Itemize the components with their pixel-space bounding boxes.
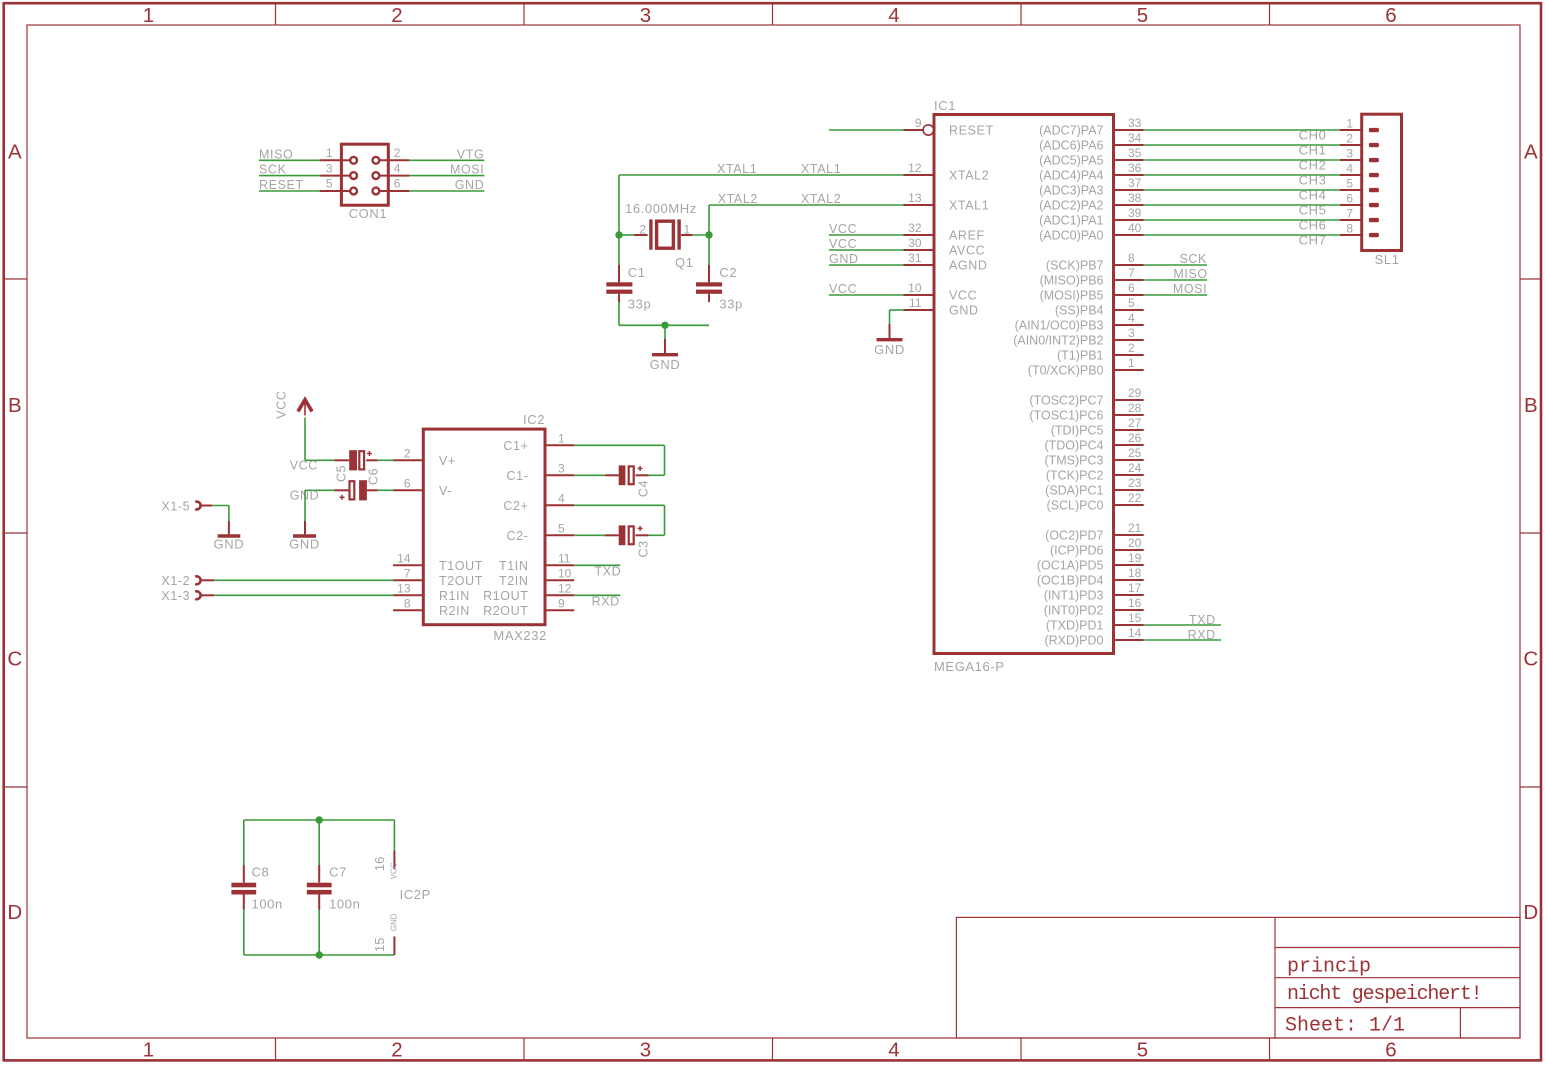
svg-text:C: C [7, 648, 22, 671]
svg-text:XTAL1: XTAL1 [801, 162, 841, 176]
svg-text:40: 40 [1128, 221, 1142, 235]
IC IC1 MEGA16-P box [934, 115, 1114, 654]
capacitor C8 [231, 865, 256, 910]
SL1 pin contacts [1369, 128, 1379, 237]
svg-text:39: 39 [1128, 206, 1142, 220]
ground symbol at X1-5 [218, 521, 241, 536]
svg-text:34: 34 [1128, 131, 1142, 145]
svg-text:GND: GND [390, 913, 399, 931]
junction crystal right [705, 231, 712, 238]
svg-text:(TXD)PD1: (TXD)PD1 [1046, 619, 1104, 633]
svg-text:CH4: CH4 [1299, 188, 1327, 203]
ground symbol below C5 C6 [293, 521, 316, 536]
svg-text:CH7: CH7 [1299, 233, 1327, 248]
svg-text:(AIN1/OC0)PB3: (AIN1/OC0)PB3 [1015, 319, 1104, 333]
svg-text:XTAL1: XTAL1 [717, 162, 757, 176]
svg-text:33p: 33p [628, 297, 652, 312]
svg-text:TXD: TXD [595, 564, 622, 578]
svg-text:11: 11 [558, 551, 571, 565]
svg-text:(OC1B)PD4: (OC1B)PD4 [1037, 574, 1104, 588]
junction bottom bus [316, 951, 323, 958]
IC IC2 MAX232 box [423, 429, 545, 625]
wire VCC column down to gnd [304, 490, 306, 521]
net VTG wire at CON1 [409, 159, 484, 161]
svg-text:9: 9 [915, 116, 922, 130]
svg-text:MEGA16-P: MEGA16-P [934, 659, 1005, 674]
svg-text:(TCK)PC2: (TCK)PC2 [1046, 469, 1104, 483]
svg-text:Sheet: 1/1: Sheet: 1/1 [1285, 1015, 1405, 1038]
svg-text:CH6: CH6 [1299, 218, 1327, 233]
svg-text:8: 8 [1346, 222, 1353, 236]
svg-text:MISO: MISO [1173, 267, 1207, 281]
svg-text:20: 20 [1128, 536, 1142, 550]
svg-text:4: 4 [888, 1039, 899, 1062]
svg-text:3: 3 [640, 1039, 651, 1062]
IC1 left pins [904, 125, 935, 310]
net SCK wire at CON1 [259, 175, 320, 177]
svg-text:MISO: MISO [259, 147, 293, 161]
svg-text:1: 1 [1346, 117, 1353, 131]
svg-text:100n: 100n [252, 896, 283, 911]
svg-text:12: 12 [558, 581, 572, 595]
svg-text:(OC2)PD7: (OC2)PD7 [1045, 529, 1103, 543]
svg-text:23: 23 [1128, 476, 1142, 490]
wire V- row left [305, 489, 334, 491]
svg-text:30: 30 [908, 236, 922, 250]
svg-text:16: 16 [1128, 596, 1142, 610]
wire decoupling top bus [244, 819, 395, 821]
svg-text:TXD: TXD [1189, 613, 1216, 627]
net MOSI wire at IC1 pin 6 [1144, 294, 1207, 296]
svg-text:(INT1)PD3: (INT1)PD3 [1044, 589, 1104, 603]
svg-text:8: 8 [404, 596, 411, 610]
svg-text:10: 10 [908, 281, 922, 295]
net MOSI wire at CON1 [409, 175, 484, 177]
svg-text:C1+: C1+ [503, 439, 528, 453]
svg-text:X1-2: X1-2 [161, 574, 190, 588]
svg-text:RXD: RXD [592, 594, 620, 608]
svg-text:IC2: IC2 [523, 412, 545, 427]
pin X1-5 [195, 502, 212, 510]
svg-text:5: 5 [1346, 177, 1353, 191]
svg-text:D: D [1523, 901, 1538, 924]
svg-text:1: 1 [558, 431, 565, 445]
svg-text:(ADC3)PA3: (ADC3)PA3 [1039, 184, 1103, 198]
IC1 right pin numbers [1128, 116, 1142, 640]
svg-text:(TDI)PC5: (TDI)PC5 [1051, 424, 1104, 438]
svg-text:(SCL)PC0: (SCL)PC0 [1047, 499, 1104, 513]
svg-text:4: 4 [1128, 311, 1135, 325]
svg-text:5: 5 [1137, 1039, 1148, 1062]
net XTAL2 wire horizontal [709, 204, 904, 206]
wire gnd stub [664, 325, 666, 339]
svg-text:2: 2 [391, 4, 402, 27]
svg-text:2: 2 [1346, 132, 1353, 146]
IC2 left pins [393, 460, 423, 610]
nets CH0-CH7 wires [1144, 130, 1362, 235]
IC2P power pin 16 VCC [393, 850, 395, 869]
svg-text:(TOSC1)PC6: (TOSC1)PC6 [1029, 409, 1103, 423]
svg-text:32: 32 [908, 221, 922, 235]
wire crystal ground bus [619, 324, 709, 326]
connector SL1 box [1362, 114, 1402, 250]
wire C1 bottom [618, 302, 620, 325]
svg-text:C2-: C2- [507, 529, 529, 543]
IC1 right pins [1114, 130, 1144, 640]
wire C1+ to C4 loop [574, 445, 664, 475]
supply symbol VCC arrow [298, 400, 312, 416]
svg-text:2: 2 [391, 1039, 402, 1062]
svg-text:VTG: VTG [457, 147, 485, 161]
svg-text:12: 12 [908, 161, 922, 175]
svg-text:(ADC0)PA0: (ADC0)PA0 [1039, 229, 1103, 243]
net TXD wire at IC1 pin 15 [1144, 624, 1221, 626]
svg-text:XTAL2: XTAL2 [801, 192, 841, 206]
net VCC wire to AVCC pin 30 [829, 249, 904, 251]
svg-text:(ADC4)PA4: (ADC4)PA4 [1039, 169, 1103, 183]
svg-text:3: 3 [640, 4, 651, 27]
svg-text:16.000MHz: 16.000MHz [625, 201, 697, 216]
ground symbol below crystal [652, 339, 678, 355]
IC2 right pins [545, 445, 574, 610]
svg-text:2: 2 [394, 146, 401, 160]
svg-text:nicht gespeichert!: nicht gespeichert! [1287, 983, 1481, 1006]
svg-text:XTAL2: XTAL2 [718, 192, 758, 206]
svg-text:(T1)PB1: (T1)PB1 [1057, 349, 1104, 363]
junction crystal left [615, 231, 622, 238]
svg-text:T1OUT: T1OUT [439, 559, 483, 573]
wire X1-3 to R1IN [214, 594, 393, 596]
net XTAL1 wire horizontal [619, 174, 904, 176]
svg-text:28: 28 [1128, 401, 1142, 415]
svg-text:33p: 33p [719, 297, 743, 312]
svg-text:22: 22 [1128, 491, 1142, 505]
IC1 right pin names [1013, 124, 1103, 648]
svg-text:CH5: CH5 [1299, 203, 1327, 218]
wire to IC2P VCC pin [393, 820, 395, 850]
net labels CH0-CH7 [1299, 128, 1327, 248]
svg-text:2: 2 [639, 223, 646, 237]
capacitor C1 [606, 265, 632, 302]
svg-text:5: 5 [1137, 4, 1148, 27]
svg-text:C8: C8 [252, 864, 270, 879]
net GND wire from pin 11 [890, 310, 904, 324]
title block frame [956, 917, 1520, 1038]
svg-text:VCC: VCC [390, 862, 399, 879]
svg-text:6: 6 [1385, 4, 1396, 27]
svg-text:CH2: CH2 [1299, 158, 1327, 173]
IC2 right pin numbers [558, 431, 572, 610]
svg-text:5: 5 [558, 521, 565, 535]
svg-text:(MISO)PB6: (MISO)PB6 [1040, 274, 1104, 288]
wire V+ row right [378, 459, 393, 461]
net VCC wire to AREF pin 32 [829, 234, 904, 236]
svg-text:29: 29 [1128, 386, 1142, 400]
net MISO wire at CON1 [259, 159, 320, 161]
svg-text:RESET: RESET [259, 178, 304, 192]
wire C2+ to C3 loop [574, 505, 664, 535]
capacitor C7 [307, 865, 332, 910]
net MISO wire at IC1 pin 7 [1144, 279, 1207, 281]
svg-text:C2: C2 [719, 265, 737, 280]
CON1 pin hole circles [350, 157, 357, 164]
svg-text:4: 4 [394, 161, 401, 175]
svg-text:15: 15 [1128, 611, 1142, 625]
IC2 left pin names [439, 454, 483, 618]
svg-text:4: 4 [1346, 162, 1353, 176]
net RXD wire at IC1 pin 14 [1144, 639, 1221, 641]
net XTAL2 wire vertical [708, 205, 710, 235]
svg-text:CH0: CH0 [1299, 128, 1327, 143]
svg-text:B: B [1524, 394, 1538, 417]
svg-text:GND: GND [289, 537, 320, 552]
svg-text:2: 2 [1128, 341, 1135, 355]
svg-text:7: 7 [404, 566, 411, 580]
wire X1-5 to gnd [212, 506, 229, 522]
svg-text:V+: V+ [439, 454, 456, 468]
svg-text:T1IN: T1IN [499, 559, 529, 573]
capacitor C6 polarized [334, 480, 378, 500]
svg-text:17: 17 [1128, 581, 1142, 595]
svg-text:4: 4 [888, 4, 899, 27]
junction top bus [316, 816, 323, 823]
svg-text:8: 8 [1128, 251, 1135, 265]
svg-text:RXD: RXD [1188, 628, 1216, 642]
svg-text:IC2P: IC2P [400, 887, 431, 902]
wire V+ row left [305, 459, 334, 461]
capacitor C2 [696, 265, 722, 302]
svg-text:CON1: CON1 [349, 206, 388, 221]
svg-text:13: 13 [908, 191, 922, 205]
svg-text:R2IN: R2IN [439, 604, 470, 618]
SL1 pin numbers 1-8 [1346, 117, 1353, 236]
svg-text:(ADC2)PA2: (ADC2)PA2 [1039, 199, 1103, 213]
IC1 left pin numbers [908, 116, 922, 310]
svg-text:AGND: AGND [949, 259, 988, 273]
svg-text:IC1: IC1 [934, 98, 956, 113]
svg-text:6: 6 [394, 177, 401, 191]
svg-text:26: 26 [1128, 431, 1142, 445]
svg-text:27: 27 [1128, 416, 1142, 430]
svg-text:100n: 100n [329, 896, 360, 911]
pin X1-2 [195, 576, 214, 584]
net RESET wire to IC1 pin 9 [829, 129, 904, 131]
net RXD wire at IC2 pin 12 [574, 594, 620, 596]
pin X1-3 [195, 591, 214, 599]
svg-text:(ADC7)PA7: (ADC7)PA7 [1039, 124, 1103, 138]
svg-text:1: 1 [143, 1039, 154, 1062]
svg-text:VCC: VCC [949, 289, 977, 303]
svg-text:31: 31 [908, 251, 922, 265]
svg-text:(ADC5)PA5: (ADC5)PA5 [1039, 154, 1103, 168]
svg-text:T2IN: T2IN [499, 574, 529, 588]
svg-text:SL1: SL1 [1375, 252, 1400, 267]
svg-text:MOSI: MOSI [1173, 282, 1207, 296]
net TXD wire at IC2 pin 11 [574, 564, 620, 566]
ground symbol at IC1 pin 11 [877, 324, 903, 340]
svg-text:3: 3 [558, 461, 565, 475]
svg-text:(OC1A)PD5: (OC1A)PD5 [1037, 559, 1104, 573]
svg-text:C7: C7 [329, 864, 347, 879]
svg-text:VCC: VCC [290, 458, 318, 472]
svg-text:C5: C5 [335, 465, 349, 482]
svg-text:9: 9 [558, 596, 565, 610]
net RESET wire at CON1 [259, 190, 320, 192]
svg-text:21: 21 [1128, 521, 1142, 535]
svg-text:C3: C3 [636, 540, 650, 557]
svg-text:SCK: SCK [1179, 252, 1207, 266]
svg-text:Q1: Q1 [675, 255, 694, 270]
capacitor C3 polarized [605, 525, 649, 545]
svg-text:SCK: SCK [259, 163, 287, 177]
svg-text:3: 3 [1346, 147, 1353, 161]
svg-text:X1-5: X1-5 [161, 499, 190, 513]
svg-text:1: 1 [143, 4, 154, 27]
svg-text:(SS)PB4: (SS)PB4 [1055, 304, 1104, 318]
svg-text:(RXD)PD0: (RXD)PD0 [1044, 634, 1103, 648]
svg-text:XTAL1: XTAL1 [949, 199, 989, 213]
svg-text:19: 19 [1128, 551, 1142, 565]
svg-text:RESET: RESET [949, 124, 994, 138]
connector CON1 box [341, 144, 388, 205]
svg-text:XTAL2: XTAL2 [949, 169, 989, 183]
svg-text:(INT0)PD2: (INT0)PD2 [1044, 604, 1104, 618]
svg-text:R2OUT: R2OUT [483, 604, 528, 618]
svg-text:4: 4 [558, 491, 565, 505]
svg-text:A: A [8, 141, 22, 164]
svg-text:CH3: CH3 [1299, 173, 1327, 188]
wire crystal row left [619, 234, 634, 236]
svg-text:13: 13 [397, 581, 411, 595]
svg-text:(TMS)PC3: (TMS)PC3 [1044, 454, 1103, 468]
svg-text:C: C [1523, 648, 1538, 671]
svg-text:(AIN0/INT2)PB2: (AIN0/INT2)PB2 [1013, 334, 1103, 348]
svg-text:35: 35 [1128, 146, 1142, 160]
wire VCC arrow down [304, 418, 306, 461]
wire X1-2 to T2OUT [214, 579, 393, 581]
svg-text:10: 10 [558, 566, 572, 580]
wire C8 bottom [243, 910, 245, 956]
CON1 right pin stubs [380, 159, 409, 161]
net GND wire to AGND pin 31 [829, 264, 904, 266]
svg-text:(TOSC2)PC7: (TOSC2)PC7 [1029, 394, 1103, 408]
svg-text:1: 1 [326, 146, 333, 160]
svg-text:C1-: C1- [507, 469, 529, 483]
svg-text:15: 15 [372, 938, 387, 952]
svg-text:38: 38 [1128, 191, 1142, 205]
svg-text:R1OUT: R1OUT [483, 589, 528, 603]
svg-text:1: 1 [684, 223, 691, 237]
svg-text:MOSI: MOSI [450, 163, 484, 177]
CON1 left pin stubs [320, 159, 350, 161]
svg-text:1: 1 [1128, 356, 1135, 370]
crystal Q1 [634, 219, 693, 249]
net GND wire at CON1 [409, 190, 484, 192]
svg-text:AREF: AREF [949, 229, 985, 243]
svg-text:GND: GND [874, 342, 905, 357]
svg-text:(ADC6)PA6: (ADC6)PA6 [1039, 139, 1103, 153]
svg-text:MAX232: MAX232 [493, 628, 546, 643]
IC2 right pin names [483, 439, 528, 618]
svg-text:11: 11 [909, 296, 922, 310]
svg-text:14: 14 [397, 551, 411, 565]
svg-text:GND: GND [214, 537, 245, 552]
svg-text:C6: C6 [367, 468, 381, 485]
wire C8 top [243, 820, 245, 865]
IC1 left pin names [949, 124, 994, 318]
IC2 left pin numbers [397, 446, 411, 610]
svg-text:6: 6 [1346, 192, 1353, 206]
svg-text:3: 3 [326, 161, 333, 175]
svg-text:(ADC1)PA1: (ADC1)PA1 [1039, 214, 1103, 228]
svg-text:7: 7 [1346, 207, 1353, 221]
wire C1 top [618, 235, 620, 265]
svg-text:36: 36 [1128, 161, 1142, 175]
svg-text:VCC: VCC [275, 390, 289, 418]
svg-text:2: 2 [404, 446, 411, 460]
svg-text:18: 18 [1128, 566, 1142, 580]
svg-text:5: 5 [326, 177, 333, 191]
svg-text:33: 33 [1128, 116, 1142, 130]
svg-text:(MOSI)PB5: (MOSI)PB5 [1040, 289, 1104, 303]
wire C2 top [708, 235, 710, 265]
svg-text:princip: princip [1287, 956, 1371, 979]
svg-text:C1: C1 [628, 265, 646, 280]
svg-text:GND: GND [949, 304, 979, 318]
wire C7 bottom [318, 910, 320, 956]
svg-text:B: B [8, 394, 22, 417]
svg-text:VCC: VCC [829, 222, 857, 236]
wire decoupling bottom bus [244, 954, 395, 956]
capacitor C5 polarized [334, 450, 378, 470]
svg-text:(SDA)PC1: (SDA)PC1 [1045, 484, 1103, 498]
svg-text:6: 6 [1385, 1039, 1396, 1062]
svg-text:16: 16 [372, 857, 387, 871]
capacitor C4 polarized [605, 465, 649, 485]
svg-text:3: 3 [1128, 326, 1135, 340]
svg-text:25: 25 [1128, 446, 1142, 460]
svg-text:D: D [7, 901, 22, 924]
svg-text:GND: GND [829, 252, 859, 266]
net VCC wire to VCC pin 10 [829, 294, 904, 296]
net SCK wire at IC1 pin 8 [1144, 264, 1207, 266]
svg-text:(T0/XCK)PB0: (T0/XCK)PB0 [1028, 364, 1104, 378]
svg-text:(SCK)PB7: (SCK)PB7 [1046, 259, 1104, 273]
svg-text:C4: C4 [636, 480, 650, 497]
svg-text:VCC: VCC [829, 282, 857, 296]
svg-text:VCC: VCC [829, 237, 857, 251]
svg-text:(ICP)PD6: (ICP)PD6 [1050, 544, 1104, 558]
svg-text:C2+: C2+ [503, 499, 528, 513]
svg-text:5: 5 [1128, 296, 1135, 310]
svg-text:AVCC: AVCC [949, 244, 985, 258]
svg-text:6: 6 [1128, 281, 1135, 295]
svg-text:GND: GND [455, 178, 485, 192]
svg-text:T2OUT: T2OUT [439, 574, 483, 588]
svg-text:14: 14 [1128, 626, 1142, 640]
junction gnd bus [661, 322, 668, 329]
net XTAL1 wire vertical [618, 175, 620, 235]
svg-text:24: 24 [1128, 461, 1142, 475]
wire crystal row right [693, 234, 710, 236]
svg-text:GND: GND [650, 357, 681, 372]
svg-text:(TDO)PC4: (TDO)PC4 [1044, 439, 1103, 453]
wire V- row right [378, 489, 393, 491]
svg-text:X1-3: X1-3 [161, 589, 190, 603]
svg-text:CH1: CH1 [1299, 143, 1327, 158]
svg-text:37: 37 [1128, 176, 1142, 190]
svg-text:7: 7 [1128, 266, 1135, 280]
